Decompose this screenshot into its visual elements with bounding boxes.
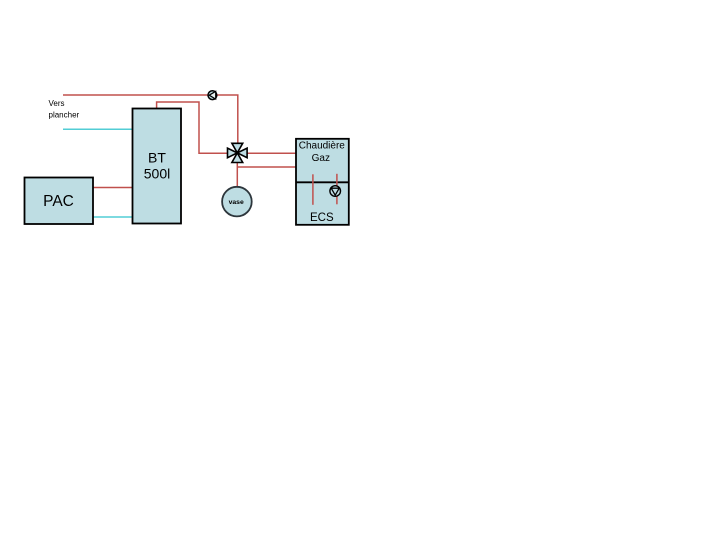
svg-text:BT: BT <box>148 150 166 166</box>
wire: cyan return tank to PAC <box>93 216 132 218</box>
wire: cyan return from floor heating to tank <box>63 128 132 130</box>
wire: valve right to boiler <box>247 152 296 154</box>
pump P1 on supply line <box>208 91 217 100</box>
wire: red coil line right inside boiler <box>336 174 338 205</box>
svg-text:Vers: Vers <box>49 99 65 108</box>
expansion vessel (vase) <box>222 187 252 217</box>
svg-text:plancher: plancher <box>49 110 80 119</box>
pump P2 inside boiler <box>330 186 341 197</box>
wire: red line PAC to tank <box>93 187 132 189</box>
wire: valve bottom down to expansion vessel <box>236 163 238 188</box>
wire: red coil line left inside boiler <box>312 174 314 205</box>
mixing valve (4-way cross) <box>228 143 248 162</box>
svg-text:ECS: ECS <box>310 212 334 224</box>
svg-text:Gaz: Gaz <box>312 153 330 164</box>
boiler internal divider <box>296 181 349 183</box>
svg-text:PAC: PAC <box>43 193 74 210</box>
svg-text:vase: vase <box>229 199 244 206</box>
svg-text:500l: 500l <box>144 166 170 182</box>
boiler Chaudiere Gaz box <box>296 139 349 225</box>
svg-text:Chaudière: Chaudière <box>299 141 346 152</box>
wire: red line from tank top to valve left <box>157 102 227 153</box>
wire: lower red return line to boiler <box>237 166 296 168</box>
tank BT 500l <box>133 109 182 224</box>
wire: main red supply line to floor heating <box>63 95 238 143</box>
PAC box <box>25 178 94 225</box>
